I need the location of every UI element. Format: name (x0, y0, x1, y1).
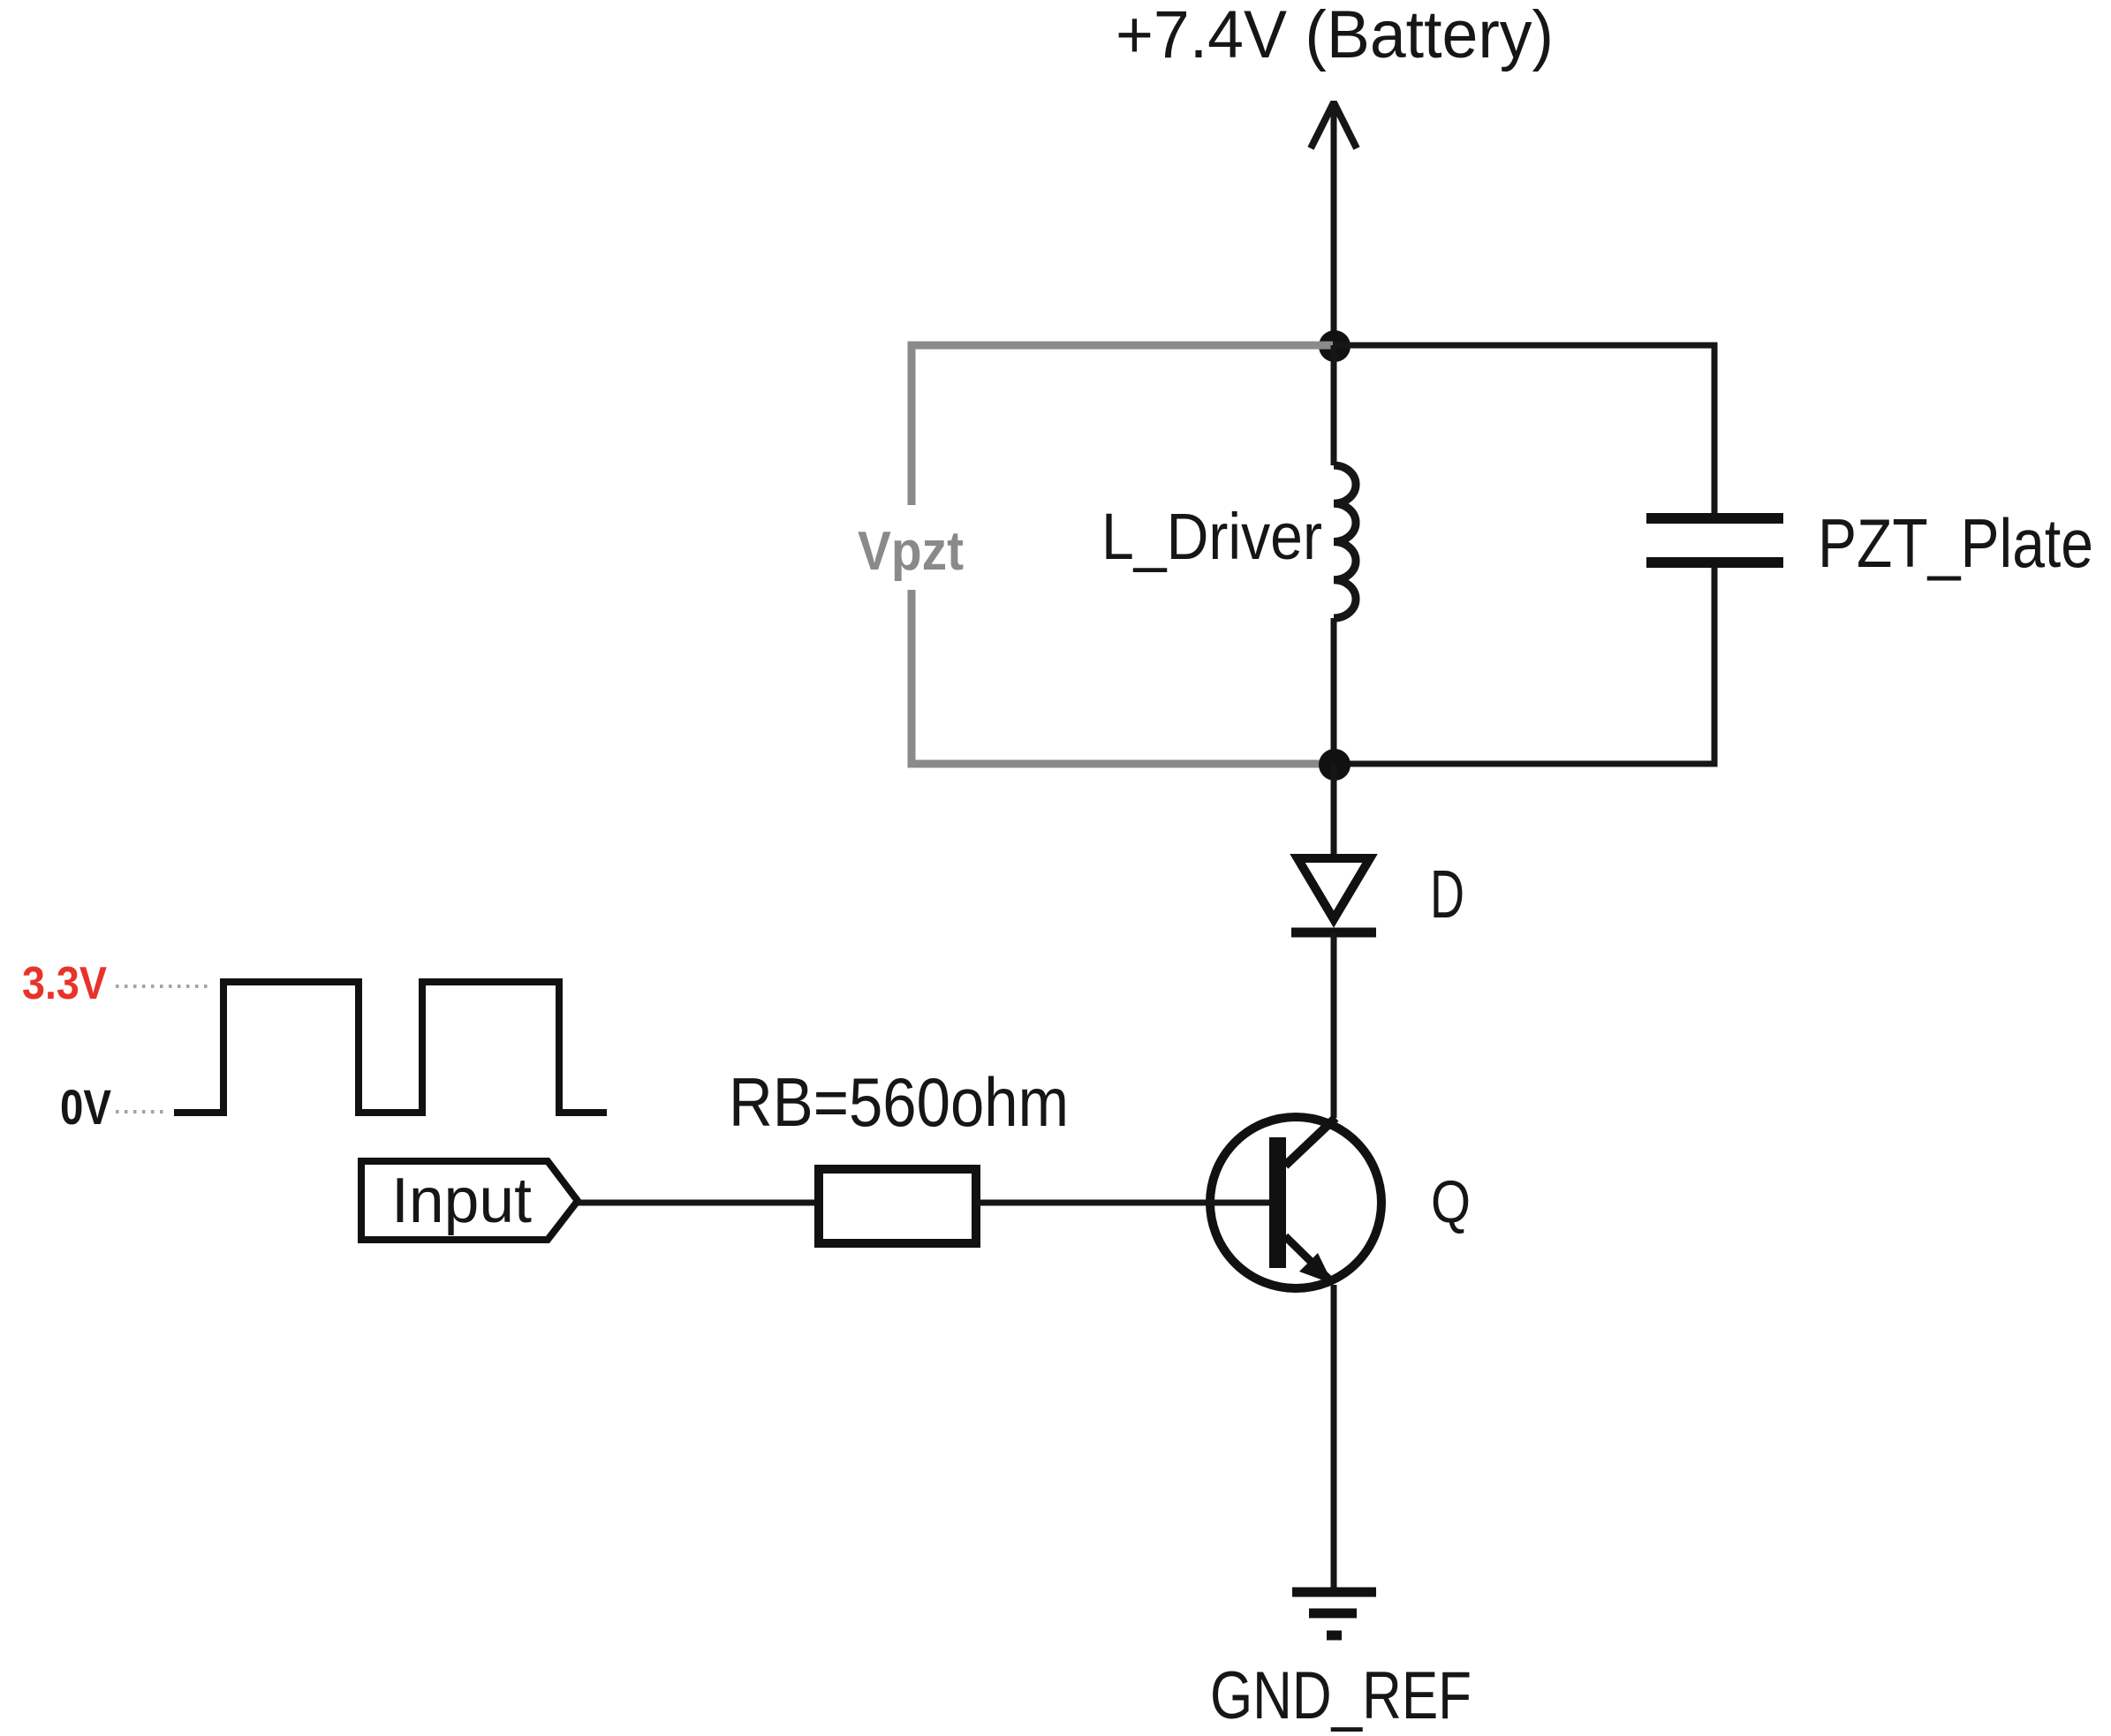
wire battery to top junction (1331, 101, 1337, 345)
wire emitter to ground (1331, 1285, 1337, 1592)
svg-text:Vpzt: Vpzt (858, 521, 964, 582)
input square wave (174, 982, 607, 1113)
hierarchical label Input (361, 1161, 578, 1240)
resistor RB (819, 1169, 976, 1243)
wire Input to resistor (578, 1200, 819, 1206)
wire bottom junction to diode (1331, 764, 1337, 857)
diode D (1291, 858, 1376, 932)
power arrow symbol (1311, 102, 1357, 148)
svg-text:0V: 0V (60, 1079, 111, 1135)
ground GND_REF symbol (1292, 1592, 1376, 1635)
node top junction (1319, 330, 1351, 362)
svg-text:Input: Input (391, 1166, 532, 1236)
capacitor PZT_Plate (1646, 518, 1783, 562)
svg-text:L_Driver: L_Driver (1101, 500, 1322, 573)
wire diode to transistor collector (1331, 932, 1337, 1118)
svg-text:D: D (1430, 857, 1464, 932)
node bottom junction (1319, 749, 1351, 781)
inductor L_Driver (1334, 345, 1356, 764)
svg-text:Q: Q (1431, 1168, 1471, 1235)
wire bottom plate down and back to bottom junction (1334, 568, 1714, 764)
Vpzt measurement box (gray) (912, 345, 1333, 764)
svg-text:GND_REF: GND_REF (1210, 1658, 1472, 1733)
wire resistor to transistor base (976, 1200, 1269, 1206)
svg-text:RB=560ohm: RB=560ohm (729, 1063, 1069, 1141)
dotted reference line 0V (116, 1110, 166, 1113)
wire top junction to capacitor branch (1334, 345, 1714, 513)
svg-text:3.3V: 3.3V (22, 958, 107, 1009)
svg-text:+7.4V (Battery): +7.4V (Battery) (1116, 0, 1554, 72)
dotted reference line 3.3V (116, 985, 212, 988)
transistor Q (NPN) (1210, 1117, 1381, 1288)
svg-text:PZT_Plate: PZT_Plate (1818, 504, 2093, 582)
